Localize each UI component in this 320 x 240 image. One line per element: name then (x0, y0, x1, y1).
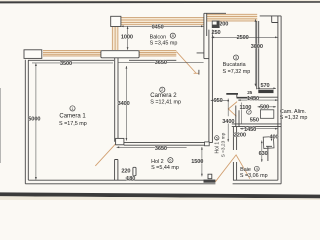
svg-text:S =1,32 mp: S =1,32 mp (280, 115, 308, 121)
svg-text:Bucataria: Bucataria (223, 62, 246, 68)
svg-text:Balcon: Balcon (150, 34, 166, 40)
svg-text:5000: 5000 (28, 116, 40, 122)
svg-text:1450: 1450 (244, 127, 256, 133)
svg-text:S =3,23 mp: S =3,23 mp (220, 132, 226, 157)
svg-text:1500: 1500 (191, 159, 203, 165)
svg-text:570: 570 (261, 83, 270, 89)
svg-text:3650: 3650 (155, 146, 167, 152)
svg-text:2200: 2200 (234, 132, 246, 138)
svg-text:Camera 2: Camera 2 (150, 93, 177, 99)
svg-text:Camera 1: Camera 1 (59, 113, 86, 119)
svg-text:S =5,44 mp: S =5,44 mp (151, 165, 179, 171)
svg-text:S =3,06 mp: S =3,06 mp (240, 173, 268, 179)
svg-text:220: 220 (121, 168, 130, 174)
svg-text:1450: 1450 (247, 96, 259, 102)
svg-text:3000: 3000 (251, 44, 263, 50)
svg-text:250: 250 (212, 30, 221, 36)
svg-text:Hol 1: Hol 1 (215, 142, 221, 154)
svg-text:550: 550 (250, 118, 259, 124)
svg-text:3500: 3500 (60, 61, 72, 67)
svg-text:S =3,45 mp: S =3,45 mp (150, 41, 178, 47)
svg-text:950: 950 (214, 98, 223, 104)
svg-text:3650: 3650 (155, 60, 167, 66)
svg-text:S =12,41 mp: S =12,41 mp (150, 99, 181, 105)
svg-text:630: 630 (259, 151, 268, 157)
svg-text:400: 400 (270, 134, 279, 140)
svg-text:3400: 3400 (222, 119, 234, 125)
svg-text:S =7,32 mp: S =7,32 mp (223, 69, 251, 75)
svg-text:2500: 2500 (237, 35, 249, 41)
svg-text:180: 180 (126, 176, 135, 182)
svg-text:1000: 1000 (121, 35, 133, 41)
svg-text:25: 25 (247, 90, 252, 95)
svg-text:S =17,5 mp: S =17,5 mp (59, 121, 87, 127)
svg-text:500: 500 (260, 105, 269, 111)
svg-text:0450: 0450 (152, 25, 164, 31)
svg-text:3400: 3400 (118, 101, 130, 107)
svg-text:200: 200 (219, 21, 228, 27)
